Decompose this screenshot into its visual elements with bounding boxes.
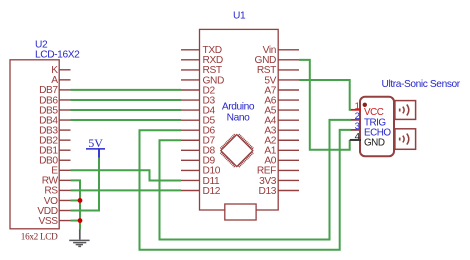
U1 left pin D8 bbox=[181, 146, 215, 157]
U1 left pin D2 bbox=[181, 85, 215, 96]
U2 pin DB5 bbox=[39, 105, 70, 116]
svg-text:Ultra-Sonic Sensor: Ultra-Sonic Sensor bbox=[382, 79, 461, 90]
U1 left pin GND bbox=[181, 75, 224, 86]
svg-text:Nano: Nano bbox=[227, 113, 250, 124]
sensor pin 4 GND bbox=[350, 131, 385, 148]
wire Arduino GND to sensor GND bbox=[299, 60, 350, 150]
U2 pin RW bbox=[42, 176, 71, 187]
U1 left pin RST bbox=[181, 65, 222, 76]
U2 pin DB4 bbox=[39, 115, 70, 126]
U2 pin DB3 bbox=[39, 125, 70, 136]
wire DB6 to D3 bbox=[71, 99, 182, 101]
sensor transducer 2 bbox=[395, 129, 416, 150]
svg-text:D12: D12 bbox=[203, 186, 221, 197]
sensor pin 2 TRIG bbox=[350, 111, 386, 128]
U1 right pin A5 bbox=[264, 105, 299, 116]
U2 pin K bbox=[51, 65, 70, 76]
U2 pin DB1 bbox=[39, 146, 70, 157]
wire VDD to 5V bbox=[71, 158, 100, 211]
U1 left pin D5 bbox=[181, 115, 215, 126]
wire D7 to TRIG bbox=[160, 120, 352, 240]
U1 left pin D3 bbox=[181, 95, 215, 106]
U1 left pin D6 bbox=[181, 126, 215, 137]
U1 left pin D12 bbox=[181, 186, 221, 197]
U1 right pin A2 bbox=[264, 136, 299, 147]
ground symbol bbox=[69, 229, 89, 247]
sensor pin 3 ECHO bbox=[350, 121, 391, 138]
junction VO bbox=[78, 198, 83, 203]
U1 left pin D11 bbox=[181, 176, 220, 187]
wire Arduino 5V to sensor VCC bbox=[299, 80, 351, 110]
U1 microcontroller chip symbol bbox=[220, 134, 253, 167]
svg-text:16x2 LCD: 16x2 LCD bbox=[21, 231, 58, 241]
U1 right pin REF bbox=[257, 166, 299, 177]
U2 pin DB6 bbox=[39, 95, 70, 106]
U2 pin VDD bbox=[37, 206, 70, 217]
U1 right pin 3V3 bbox=[259, 176, 299, 187]
U1 right pin 5V bbox=[264, 75, 299, 86]
junction VSS bbox=[78, 218, 83, 223]
svg-text:GND: GND bbox=[364, 137, 385, 148]
sensor pin 1 VCC bbox=[350, 101, 384, 118]
wire E to D11 bbox=[71, 170, 182, 180]
U2 pin A bbox=[51, 75, 70, 86]
U1 right pin A3 bbox=[264, 126, 299, 137]
U1 left pin D10 bbox=[181, 166, 221, 177]
5V power symbol bbox=[86, 136, 105, 158]
U2 pin VSS bbox=[39, 216, 71, 227]
U1 right pin GND bbox=[255, 55, 299, 66]
U1 right pin A6 bbox=[264, 95, 299, 106]
U1 right pin D13 bbox=[259, 186, 300, 197]
wire RS to D12 bbox=[71, 189, 182, 191]
LCD display U2 body bbox=[10, 60, 59, 229]
U2 pin E bbox=[51, 166, 70, 177]
svg-text:U1: U1 bbox=[233, 11, 246, 22]
wire RW to ground bbox=[71, 180, 81, 229]
U1 USB connector symbol bbox=[225, 204, 256, 220]
U2 pin DB0 bbox=[39, 156, 70, 167]
wire sensor GND stub black bbox=[350, 139, 361, 141]
U1 right pin A1 bbox=[264, 146, 299, 157]
U1 part name Arduino Nano bbox=[222, 102, 255, 124]
U1 right pin A4 bbox=[264, 115, 299, 126]
U1 right pin Vin bbox=[263, 45, 299, 56]
wire D6 to ECHO bbox=[140, 130, 352, 250]
svg-text:LCD-16X2: LCD-16X2 bbox=[35, 50, 80, 61]
U1 right pin RST bbox=[257, 65, 299, 76]
Arduino Nano U1 body bbox=[200, 29, 279, 210]
sensor transducer 1 bbox=[395, 101, 416, 120]
wire DB5 to D4 bbox=[71, 109, 182, 111]
sensor pin-1 marker dot bbox=[363, 103, 367, 107]
U1 left pin D7 bbox=[181, 136, 215, 147]
U1 left pin D4 bbox=[181, 105, 215, 116]
wire VO to ground rail bbox=[71, 199, 81, 201]
U1 right pin A7 bbox=[264, 85, 299, 96]
wire DB4 to D5 bbox=[71, 119, 182, 121]
svg-text:D13: D13 bbox=[259, 186, 277, 197]
U1 left pin TXD bbox=[181, 45, 222, 56]
svg-text:VSS: VSS bbox=[39, 216, 59, 227]
U2 pin DB7 bbox=[39, 85, 70, 96]
ultrasonic sensor body bbox=[360, 97, 394, 156]
svg-text:5V: 5V bbox=[88, 136, 103, 150]
svg-text:Arduino: Arduino bbox=[222, 102, 255, 113]
U1 right pin A0 bbox=[264, 156, 299, 167]
U2 pin DB2 bbox=[39, 135, 70, 146]
U2 pin VO bbox=[44, 196, 71, 207]
U1 left pin RXD bbox=[181, 55, 223, 66]
wire VSS to ground rail bbox=[71, 220, 81, 222]
U2 pin RS bbox=[44, 186, 70, 197]
wire DB7 to D2 bbox=[71, 89, 182, 91]
U1 left pin D9 bbox=[181, 156, 215, 167]
